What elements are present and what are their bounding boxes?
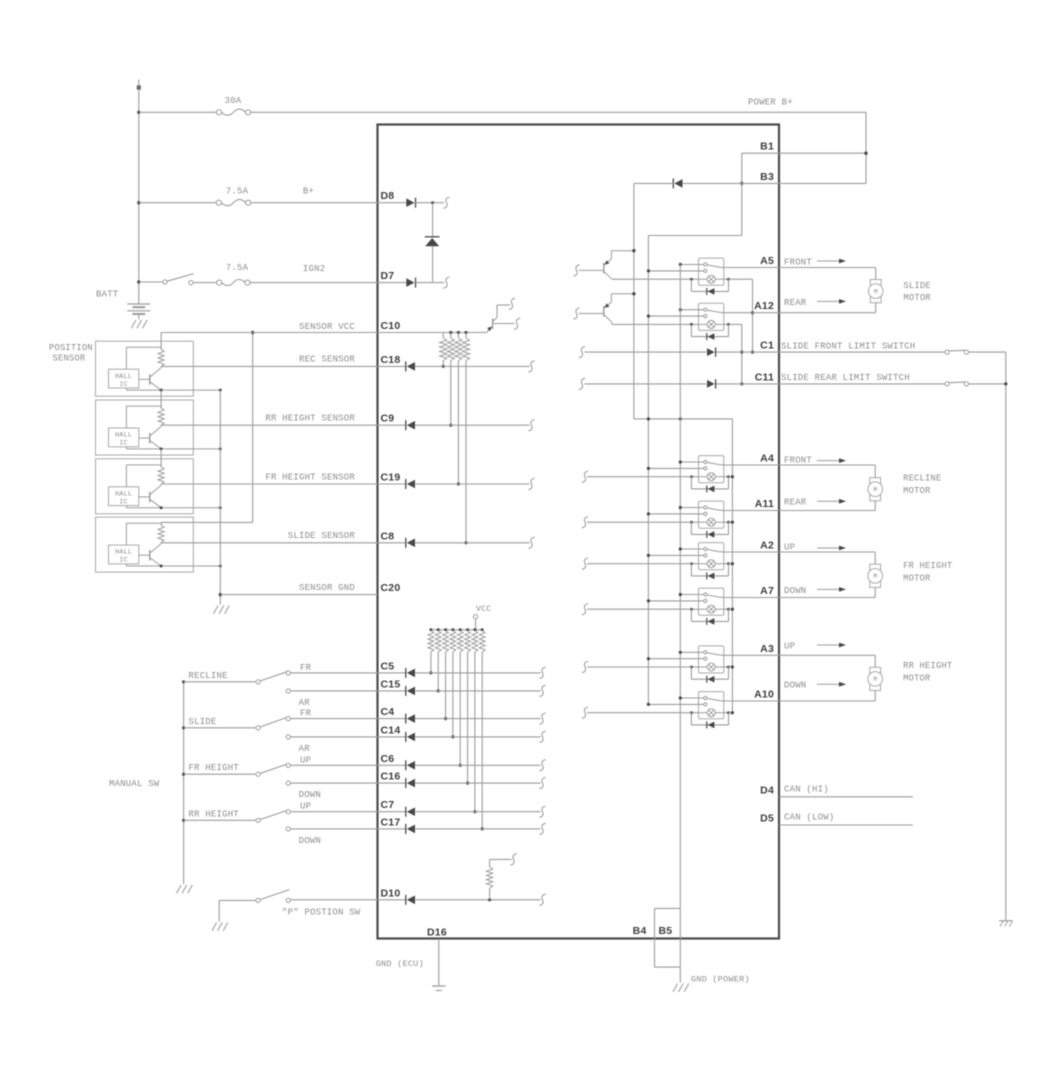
node relay K5 (fr height up) coil right junction — [727, 562, 730, 565]
wire C10 row inside — [378, 332, 487, 334]
svg-text:C11: C11 — [755, 371, 774, 383]
wire sensor vcc cascade 2-3 — [160, 449, 162, 467]
node Q1 base break — [573, 265, 579, 276]
svg-text:SENSOR: SENSOR — [53, 354, 86, 364]
node cross link b — [647, 417, 650, 420]
zener diode D-Z — [425, 236, 440, 238]
transistor Q2 relay driver — [579, 294, 634, 325]
fuse F2 7.5A — [216, 200, 221, 205]
node K4 (recline rear) coil return junction — [731, 521, 734, 524]
svg-text:CAN (HI): CAN (HI) — [784, 784, 829, 794]
node K1 coil C1 junction — [751, 351, 754, 354]
svg-text:UP: UP — [300, 755, 311, 765]
node relay K8 (rr height down) upper feed junction — [679, 696, 682, 699]
diode C6 input — [378, 764, 406, 766]
wire A12 external to slide motor — [779, 312, 876, 314]
wire relay K2 (slide rear) coil left — [691, 323, 698, 325]
diode relay K6 (fr height down) flyback — [690, 609, 692, 621]
svg-text:RECLINE: RECLINE — [903, 474, 941, 484]
diode C16 input — [378, 782, 406, 784]
diode C17 input — [378, 828, 406, 830]
node pull-up 7 to row — [473, 810, 476, 813]
wire POWER B+ top rail — [139, 111, 219, 113]
wire A7 external — [779, 597, 875, 599]
wire relay K3 (recline front) coil left — [691, 476, 698, 478]
resistor switch pull-up 5 — [459, 628, 462, 631]
svg-text:"P" POSTION SW: "P" POSTION SW — [282, 908, 361, 918]
svg-text:SENSOR VCC: SENSOR VCC — [299, 322, 355, 332]
ground manual sw — [177, 885, 182, 893]
node pull-up 1 to row — [429, 671, 432, 674]
diode relay K1 (slide front) flyback — [690, 279, 692, 291]
node pull-up 3 to row — [444, 717, 447, 720]
svg-text:C5: C5 — [381, 660, 395, 672]
svg-text:A5: A5 — [760, 255, 774, 267]
svg-text:IC: IC — [119, 498, 128, 506]
wire sensor gnd rail — [219, 390, 221, 604]
svg-text:B5: B5 — [659, 925, 673, 937]
slide motor symbol — [868, 280, 883, 303]
svg-text:REC SENSOR: REC SENSOR — [299, 355, 355, 365]
node K8 (rr height down) coil feed break — [582, 707, 588, 718]
svg-text:7.5A: 7.5A — [226, 187, 249, 197]
node relay K2 (slide rear) coil right junction — [727, 323, 730, 326]
wire K3 (recline front) coil feed — [587, 476, 691, 478]
svg-text:HALL: HALL — [115, 490, 132, 498]
svg-text:AR: AR — [299, 698, 311, 708]
diode relay K8 (rr height down) flyback — [690, 713, 692, 725]
wire B1 row — [742, 152, 779, 154]
node emitter junction SLIDE — [160, 565, 163, 568]
svg-text:C1: C1 — [760, 340, 774, 352]
relay K3 (recline front) — [699, 456, 724, 483]
wire A5 external to slide motor — [779, 267, 876, 269]
svg-text:SLIDE SENSOR: SLIDE SENSOR — [288, 531, 356, 541]
arrow A2 — [817, 547, 845, 549]
svg-text:MOTOR: MOTOR — [903, 674, 931, 684]
svg-text:M: M — [874, 288, 878, 295]
svg-text:POSITION: POSITION — [49, 343, 93, 353]
resistor sensor pull-up 2 — [449, 331, 452, 334]
arrow A7 — [817, 588, 845, 590]
node relay K1 (slide front) coil right junction — [727, 278, 730, 281]
diode B3 — [672, 178, 674, 188]
svg-text:7.5A: 7.5A — [226, 263, 249, 273]
wire P position sw gnd — [218, 900, 220, 921]
diode C14 input — [378, 736, 406, 738]
svg-text:C14: C14 — [381, 724, 401, 736]
svg-text:C16: C16 — [381, 771, 401, 783]
wire sensor vcc rail top — [160, 333, 162, 350]
wire D4 CAN HI — [779, 796, 913, 798]
svg-text:D5: D5 — [760, 813, 774, 825]
wire relay K1 coil to A12 row — [729, 278, 753, 280]
node C7 break — [539, 806, 545, 817]
node C8 break — [528, 537, 534, 548]
svg-text:A12: A12 — [754, 300, 774, 312]
svg-text:DOWN: DOWN — [784, 586, 806, 596]
node C5 break — [539, 667, 545, 678]
svg-text:A10: A10 — [754, 689, 774, 701]
node C11 break — [579, 378, 585, 389]
wire relay K7 (rr height up) coil right — [724, 666, 729, 668]
wire Q3 collector to break — [496, 305, 498, 312]
wire sensor output REC — [161, 365, 377, 367]
wire zener vertical — [432, 203, 434, 237]
wire B+ internal rail B — [647, 236, 649, 705]
node relay K6 (fr height down) coil right junction — [727, 608, 730, 611]
svg-text:FR HEIGHT: FR HEIGHT — [903, 561, 952, 571]
node C16 break — [539, 778, 545, 789]
wire K8 (rr height down) output row — [724, 700, 779, 702]
switch RR HEIGHT — [182, 810, 290, 831]
wire relay K1 (slide front) coil right — [724, 278, 729, 280]
wire relay K3 (recline front) lower contact feed — [648, 467, 703, 469]
wire B4/B5 gnd loop — [654, 908, 656, 967]
wire C15 row inside — [415, 690, 541, 692]
wire K4 (recline rear) coil return — [729, 521, 733, 523]
relay K5 (fr height up) — [699, 543, 724, 570]
svg-text:C7: C7 — [381, 799, 395, 811]
svg-text:SLIDE FRONT LIMIT SWITCH: SLIDE FRONT LIMIT SWITCH — [781, 341, 915, 351]
transistor Q3 sensor vcc pnp — [487, 312, 498, 333]
fr height motor symbol — [868, 564, 883, 587]
wire C14 row inside — [415, 736, 541, 738]
arrow A4 — [817, 460, 845, 462]
wire D8 inside — [416, 202, 445, 204]
node pull-up 2 to row — [437, 689, 440, 692]
node K8 (rr height down) coil return junction — [731, 711, 734, 714]
node D8 break — [443, 197, 449, 208]
node pull-up 6 to row — [466, 782, 469, 785]
svg-text:M: M — [873, 573, 877, 580]
svg-text:D7: D7 — [381, 270, 395, 282]
svg-text:C18: C18 — [381, 354, 401, 366]
node junction IGN2 feed — [137, 280, 140, 283]
diode C1 series — [715, 347, 717, 356]
svg-text:IC: IC — [119, 557, 128, 565]
svg-text:HALL: HALL — [115, 432, 132, 440]
node relay K8 (rr height down) coil right junction — [727, 711, 730, 714]
svg-text:C6: C6 — [381, 753, 395, 765]
svg-text:GND (POWER): GND (POWER) — [691, 975, 750, 985]
wire sensor output SLIDE — [161, 542, 377, 544]
node relay K6 (fr height down) upper feed junction — [679, 593, 682, 596]
svg-text:POWER B+: POWER B+ — [748, 98, 793, 108]
svg-text:IC: IC — [119, 440, 128, 448]
wire D10 row inside — [415, 899, 541, 901]
diode C19 input — [378, 483, 406, 485]
wire C7 row inside — [415, 811, 541, 813]
switch slide rear limit — [945, 382, 949, 386]
wire K5 (fr height up) output row — [724, 551, 779, 553]
node relay K1 (slide front) coil left junction — [690, 278, 693, 281]
diode C15 input — [378, 690, 406, 692]
node C1 break — [579, 347, 585, 358]
svg-text:FR HEIGHT SENSOR: FR HEIGHT SENSOR — [265, 473, 355, 483]
node battery feed marker — [137, 85, 141, 89]
svg-text:REAR: REAR — [784, 298, 807, 308]
wire ground rail (upper contacts) — [679, 265, 681, 909]
resistor switch pull-up 1 — [429, 628, 432, 631]
wire K6 (fr height down) coil feed — [587, 608, 691, 610]
diode D8 row — [378, 202, 407, 204]
wire relay K8 (rr height down) upper contact feed — [680, 697, 704, 699]
wire FR HEIGHT upper throw — [291, 764, 378, 766]
node K3 (recline front) coil feed break — [582, 471, 588, 482]
wire relay K4 (recline rear) lower contact feed — [648, 513, 703, 515]
wire K4 (recline rear) coil feed — [587, 521, 691, 523]
wire K6 (fr height down) output row — [724, 597, 779, 599]
node gnd rail junction SLIDE — [219, 565, 222, 568]
switch RECLINE — [182, 671, 290, 693]
resistor switch pull-up 6 — [466, 628, 469, 631]
resistor switch pull-up 7 — [473, 628, 476, 631]
diode D7 row — [378, 282, 407, 284]
wire C11 external — [779, 383, 945, 385]
ECU main box U1 — [378, 125, 780, 939]
recline motor symbol — [868, 478, 883, 501]
svg-text:DOWN: DOWN — [299, 790, 321, 800]
wire relay K5 (fr height up) upper contact feed — [680, 548, 704, 550]
svg-text:D10: D10 — [381, 887, 401, 899]
svg-text:SENSOR GND: SENSOR GND — [299, 583, 355, 593]
svg-text:A2: A2 — [760, 540, 774, 552]
resistor switch pull-up 4 — [451, 628, 454, 631]
wire K7 (rr height up) coil return — [729, 666, 733, 668]
node K2 coil C1 crossing — [740, 351, 743, 354]
wire manual sw bus — [183, 682, 185, 884]
svg-text:D8: D8 — [381, 190, 395, 202]
node relay K2 (slide rear) coil left junction — [690, 323, 693, 326]
wire relay K1 (slide front) lower contact feed — [648, 270, 703, 272]
svg-text:IGN2: IGN2 — [303, 264, 325, 274]
node junction D8 feed — [137, 201, 140, 204]
svg-text:UP: UP — [784, 542, 795, 552]
node K3 (recline front) coil return junction — [731, 475, 734, 478]
node B1 rail junction — [864, 152, 867, 155]
relay K7 (rr height up) — [699, 646, 724, 673]
wire relay K6 (fr height down) coil left — [691, 608, 698, 610]
wire B3 row — [683, 182, 780, 184]
svg-text:C8: C8 — [381, 530, 395, 542]
node limit rail junction — [1004, 382, 1007, 385]
resistor sensor pull-up 4 — [464, 331, 467, 334]
wire K7 (rr height up) output row — [724, 654, 779, 656]
node C9 break — [528, 420, 534, 431]
node C4 break — [539, 713, 545, 724]
svg-text:CAN (LOW): CAN (LOW) — [784, 813, 834, 823]
node Q2 base break — [573, 308, 579, 319]
node junction power b+ — [137, 111, 140, 114]
diode C7 input — [378, 811, 406, 813]
wire A4 external — [779, 464, 875, 466]
diode relay K4 (recline rear) flyback — [690, 522, 692, 534]
wire Q3 base — [493, 323, 515, 325]
svg-text:C9: C9 — [381, 413, 395, 425]
wire SENSOR GND row C20 — [220, 594, 377, 596]
node relay K4 (recline rear) coil left junction — [690, 521, 693, 524]
battery BT1 — [127, 304, 150, 320]
arrow A3 — [817, 644, 845, 646]
node K5 (fr height up) coil return junction — [731, 562, 734, 565]
node relay K4 (recline rear) upper feed junction — [679, 506, 682, 509]
ground limit rail — [999, 920, 1013, 922]
wire K6 (fr height down) coil return — [729, 608, 733, 610]
node pull-up to row 4 — [464, 541, 467, 544]
svg-text:C17: C17 — [381, 816, 401, 828]
diode C9 input — [378, 424, 406, 426]
resistor sensor pull-up 1 — [442, 333, 444, 339]
wire IGN2 row — [139, 281, 163, 283]
node gnd rail junction FR HEIGHT — [219, 506, 222, 509]
wire A12 row — [724, 312, 779, 314]
arrow A11 — [817, 500, 845, 502]
diode C8 input — [378, 542, 406, 544]
node pull-up 5 to row — [459, 764, 462, 767]
svg-text:FRONT: FRONT — [784, 455, 812, 465]
wire relay coil return rail — [731, 419, 733, 713]
resistor switch pull-up 8 — [481, 628, 484, 631]
wire K8 (rr height down) coil feed — [587, 712, 691, 714]
wire B+ cross link — [634, 418, 733, 420]
ground P position sw — [212, 923, 217, 931]
wire D5 CAN LOW — [779, 824, 913, 826]
wire right b+ rail down — [865, 112, 867, 183]
rr height motor symbol — [868, 667, 883, 690]
wire C4 row inside — [415, 718, 541, 720]
wire C16 row inside — [415, 782, 541, 784]
wire C9 row inside — [415, 424, 530, 426]
svg-text:FR: FR — [300, 709, 312, 719]
node emitter junction REC — [160, 389, 163, 392]
wire relay K8 (rr height down) coil left — [691, 712, 698, 714]
svg-text:UP: UP — [784, 641, 795, 651]
node gnd rail junction RR HEIGHT — [219, 447, 222, 450]
wire C19 row inside — [415, 483, 530, 485]
wire Q1 collector to coil — [612, 278, 692, 280]
wire B1 to B3 vertical — [741, 153, 743, 183]
wire P position sw to D10 — [291, 899, 378, 901]
node relay K3 (recline front) upper feed junction — [679, 460, 682, 463]
switch ignition — [163, 280, 167, 284]
node D10 pull-up break — [510, 854, 516, 865]
wire A2 external — [779, 551, 875, 553]
wire C18 row inside — [415, 365, 530, 367]
svg-text:HALL: HALL — [115, 373, 132, 381]
wire relay K8 (rr height down) coil right — [724, 712, 729, 714]
node emitter junction RR HEIGHT — [160, 447, 163, 450]
node relay K7 (rr height up) upper feed junction — [679, 651, 682, 654]
wire SLIDE upper throw — [291, 718, 378, 720]
node K7 (rr height up) coil return junction — [731, 665, 734, 668]
node C6 break — [539, 760, 545, 771]
svg-text:SLIDE REAR LIMIT SWITCH: SLIDE REAR LIMIT SWITCH — [781, 373, 910, 383]
arrow A10 — [817, 683, 845, 685]
node relay K6 (fr height down) coil left junction — [690, 608, 693, 611]
node pull-up to row 3 — [457, 482, 460, 485]
svg-text:IC: IC — [119, 381, 128, 389]
wire C6 row inside — [415, 764, 541, 766]
svg-text:HALL: HALL — [115, 549, 132, 557]
wire K5 (fr height up) coil return — [729, 563, 733, 565]
wire D16 ground stem — [438, 939, 440, 986]
wire relay K7 (rr height up) upper contact feed — [680, 651, 704, 653]
node relay K4 (recline rear) coil right junction — [727, 521, 730, 524]
node emitter junction FR HEIGHT — [160, 506, 163, 509]
svg-text:SLIDE: SLIDE — [903, 281, 930, 291]
position sensor block FR HEIGHT — [96, 459, 221, 514]
wire relay K4 (recline rear) coil left — [691, 521, 698, 523]
node relay K5 (fr height up) upper feed junction — [679, 547, 682, 550]
wire FR HEIGHT lower throw — [291, 782, 378, 784]
wire relay K1 (slide front) coil left — [691, 278, 698, 280]
svg-text:MOTOR: MOTOR — [903, 486, 931, 496]
wire D8 row fuse to ECU — [139, 202, 218, 204]
svg-text:B1: B1 — [760, 141, 774, 153]
node relay K7 (rr height up) coil right junction — [727, 666, 730, 669]
wire C1 external — [779, 351, 945, 353]
wire left battery bus — [138, 80, 140, 304]
switch slide front limit — [945, 350, 949, 354]
node relay K5 (fr height up) coil left junction — [690, 562, 693, 565]
svg-text:C4: C4 — [381, 706, 395, 718]
node relay K2 (slide rear) upper feed junction — [679, 308, 682, 311]
node relay K5 (fr height up) lower feed junction — [647, 554, 650, 557]
switch P position — [256, 898, 260, 902]
wire limit switch rail — [1005, 352, 1007, 920]
switch SLIDE — [182, 717, 290, 740]
wire relay K5 (fr height up) coil right — [724, 563, 729, 565]
node D8 zener junction — [431, 201, 434, 204]
node B3 junction — [740, 182, 743, 185]
arrow A5 — [817, 260, 845, 262]
wire sensor vcc cascade 1-2 — [160, 390, 162, 408]
node gnd rail junction REC — [219, 389, 222, 392]
node cross link c — [679, 417, 682, 420]
diode relay K7 (rr height up) flyback — [690, 667, 692, 679]
relay K4 (recline rear) — [699, 501, 724, 528]
svg-text:FR: FR — [300, 663, 312, 673]
svg-text:VCC: VCC — [476, 605, 491, 614]
wire relay K8 (rr height down) lower contact feed — [648, 703, 703, 705]
svg-text:D16: D16 — [427, 927, 447, 939]
node K7 (rr height up) coil feed break — [582, 661, 588, 672]
diode C4 input — [378, 718, 406, 720]
node relay K7 (rr height up) lower feed junction — [647, 657, 650, 660]
svg-text:A7: A7 — [760, 585, 774, 597]
node K6 (fr height down) coil return junction — [731, 608, 734, 611]
wire SLIDE lower throw — [291, 736, 378, 738]
ground ECU — [432, 985, 445, 987]
wire A10 external — [779, 700, 875, 702]
svg-text:C19: C19 — [381, 472, 401, 484]
resistor switch pull-up 2 — [437, 628, 440, 631]
node Q3 base break — [514, 318, 520, 329]
svg-text:SLIDE: SLIDE — [189, 717, 217, 727]
svg-text:FRONT: FRONT — [784, 257, 812, 267]
svg-text:BATT: BATT — [96, 290, 119, 300]
svg-text:A3: A3 — [760, 643, 774, 655]
node pull-up 4 to row — [451, 735, 454, 738]
node relay K7 (rr height up) coil left junction — [690, 666, 693, 669]
resistor sensor pull-up 3 — [457, 331, 460, 334]
diode C18 input — [378, 365, 406, 367]
node pull-up 8 to row — [481, 827, 484, 830]
wire C17 row inside — [415, 828, 541, 830]
switch FR HEIGHT — [182, 763, 290, 785]
svg-text:GND (ECU): GND (ECU) — [376, 959, 424, 969]
